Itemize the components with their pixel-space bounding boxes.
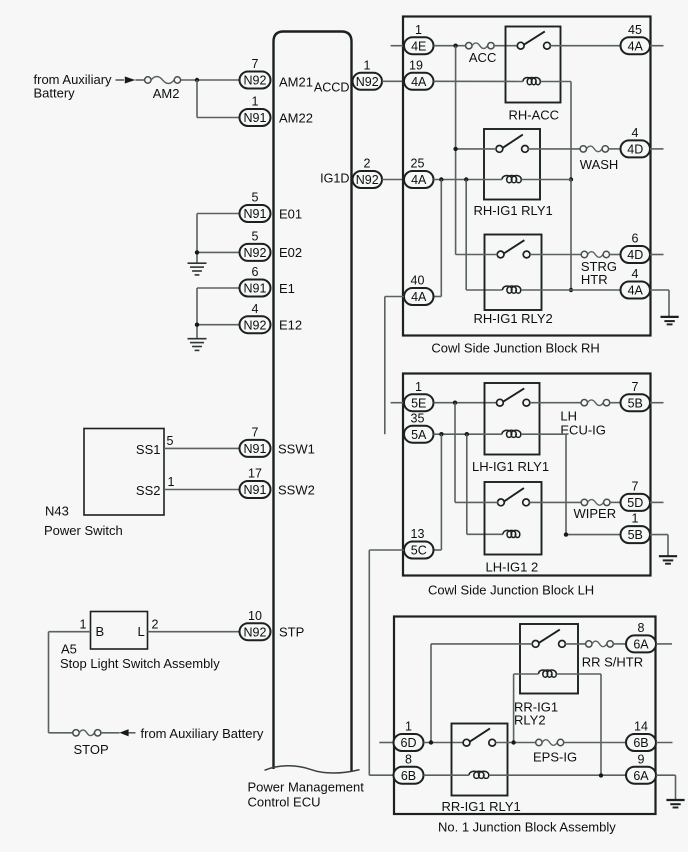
fuse LH ECU-IG (581, 400, 610, 406)
wire 25-4A to RLY1 coil (434, 179, 503, 181)
svg-text:6A: 6A (633, 769, 649, 783)
wire branch down to AM22 (197, 80, 239, 118)
label SSW1 (278, 442, 315, 457)
label AM22 (279, 111, 313, 126)
label A5 (61, 642, 77, 657)
label Cowl Side Junction Block LH (428, 582, 594, 597)
wire LH-IG1 2 contact feed (455, 501, 498, 503)
svg-text:N91: N91 (244, 442, 267, 456)
wire STOP fuse to arrow (101, 732, 136, 734)
svg-text:IG1D: IG1D (320, 171, 349, 185)
connector N92 pin 4 (E12) (240, 302, 271, 333)
connector N91 pin 7 (SSW1) (240, 426, 271, 457)
junction node ACC branch (453, 44, 457, 48)
wire stub right of 14-6B (656, 742, 673, 744)
connector N92 pin 10 (STP) (240, 609, 271, 640)
svg-text:N43: N43 (45, 504, 69, 519)
svg-text:5: 5 (252, 191, 259, 205)
wire ACC branch down to relay contacts (455, 46, 457, 255)
svg-text:4A: 4A (411, 173, 427, 187)
svg-text:4: 4 (632, 126, 639, 140)
connector 4E pin 1 (404, 23, 434, 54)
relay LH-IG1 2 coil (503, 530, 520, 537)
svg-text:40: 40 (411, 274, 425, 288)
svg-text:Cowl Side Junction Block RH: Cowl Side Junction Block RH (431, 340, 599, 355)
wire 5C riser (434, 434, 442, 550)
relay RH-IG1 RLY2 coil (503, 286, 521, 293)
junction node 6D/RLY2 contact (429, 740, 433, 744)
wire stop switch to STP (148, 631, 240, 633)
wire SS1 to SSW1 (164, 447, 239, 449)
svg-text:2: 2 (364, 157, 371, 171)
label SS2 (136, 483, 161, 498)
svg-text:N91: N91 (244, 282, 267, 296)
svg-text:N92: N92 (244, 625, 267, 639)
junction node coil return LH (564, 532, 568, 536)
label ECU-IG (560, 422, 606, 437)
svg-text:EPS-IG: EPS-IG (533, 749, 577, 764)
relay LH-IG1 2 contact (498, 488, 530, 506)
wire ACCD to junction block 4A (382, 80, 404, 82)
svg-text:1: 1 (168, 475, 175, 489)
junction node RLY1 contact tee (453, 147, 457, 151)
svg-text:7: 7 (632, 380, 639, 394)
relay LH-IG1 RLY1 box (485, 383, 540, 455)
connector 4A pin 45 (top) (621, 23, 651, 54)
connector N92 pin 7 (AM21) (240, 57, 271, 88)
wire fuse to 5B (610, 402, 621, 404)
label L (138, 624, 145, 639)
relay RR-IG1 RLY1 contact (463, 728, 496, 746)
junction block Cowl Side Junction Block RH outline (403, 17, 651, 336)
relay LH-IG1 RLY1 contact (497, 388, 530, 406)
label EPS-IG (533, 749, 577, 764)
svg-text:N91: N91 (244, 207, 267, 221)
label SS1 (136, 442, 161, 457)
label LH-IG1 RLY1 (472, 459, 549, 474)
relay RR-IG1 RLY1 coil (469, 771, 489, 778)
label ACC (469, 50, 496, 65)
svg-text:SS1: SS1 (136, 442, 161, 457)
connector 4D pin 4 (621, 126, 651, 157)
wire to STOP fuse (49, 732, 73, 734)
wire RLY2 coil return (557, 674, 602, 775)
relay RH-IG1 RLY1 coil (502, 176, 521, 183)
svg-text:B: B (96, 624, 105, 639)
fuse ACC (466, 43, 495, 49)
svg-text:8: 8 (405, 752, 412, 766)
connector N91 pin 5 (E01) (240, 191, 271, 222)
connector 4A pin 4 (ground) (621, 267, 651, 298)
ground (No.1 block) (666, 800, 684, 808)
connector 4D pin 6 (621, 232, 651, 263)
label RR S/HTR (582, 654, 643, 669)
wire 40-4A to 35-5A link (385, 297, 404, 435)
label LH-IG1 2 (486, 559, 539, 574)
svg-text:E01: E01 (279, 206, 302, 221)
connector 5C pin 13 (404, 527, 434, 558)
wire LH-IG1 2 contact to WIPER fuse (529, 501, 581, 503)
connector 5D pin 7 (621, 480, 651, 511)
svg-text:N91: N91 (244, 483, 267, 497)
svg-text:1: 1 (364, 58, 371, 72)
wire E12 to ground bus (197, 288, 239, 339)
label LH (560, 409, 577, 424)
svg-text:5B: 5B (628, 528, 643, 542)
junction block Cowl Side Junction Block LH outline (403, 374, 651, 576)
svg-text:Power Switch: Power Switch (44, 523, 123, 538)
fuse EPS-IG (536, 739, 564, 745)
wire ground bus down (570, 180, 572, 291)
wire RLY2 contact feed (456, 254, 498, 256)
label from Auxiliary Battery (top feed) (34, 72, 113, 101)
label RR-IG1 RLY1 (442, 799, 521, 814)
wire 6D to RLY1 contact (424, 742, 464, 744)
relay RH-ACC contact (517, 31, 550, 49)
wire stub left of 4E (391, 45, 404, 47)
connector 6A pin 8 (626, 621, 656, 652)
svg-text:45: 45 (628, 23, 642, 37)
svg-text:from Auxiliary Battery: from Auxiliary Battery (141, 726, 264, 741)
svg-text:RH-ACC: RH-ACC (509, 107, 560, 122)
svg-text:HTR: HTR (581, 272, 608, 287)
junction node coil bus B (464, 177, 468, 181)
wire 19-4A to RH-ACC coil (434, 80, 524, 82)
wire RLY2 coil feed riser (466, 180, 502, 291)
connector 5A pin 35 (404, 411, 434, 442)
svg-text:1: 1 (405, 720, 412, 734)
wire E01 to ground bus (197, 213, 239, 215)
svg-text:7: 7 (252, 57, 259, 71)
svg-text:LH-IG1 2: LH-IG1 2 (486, 559, 539, 574)
wire EPS fuse to 6B (564, 742, 626, 744)
junction node LH coil bus A (439, 432, 443, 436)
svg-text:14: 14 (634, 720, 648, 734)
relay RH-IG1 RLY2 contact (497, 240, 530, 258)
svg-text:N92: N92 (244, 74, 267, 88)
wire AM2 to node (181, 79, 239, 81)
wire 4-4A to ground (650, 290, 669, 317)
wire 9-6A to ground (656, 775, 676, 799)
svg-text:N92: N92 (356, 173, 379, 187)
wire LH RLY1 coil return (521, 434, 566, 534)
svg-text:25: 25 (411, 157, 425, 171)
wire RLY1 contact to WASH fuse (528, 148, 580, 150)
pin 2 (stop switch) (152, 617, 159, 631)
svg-text:Battery: Battery (34, 86, 76, 101)
connector N91 pin 6 (E1) (240, 265, 271, 296)
label E02 (279, 245, 302, 260)
ground (LH block) (659, 556, 677, 564)
svg-text:LH-IG1 RLY1: LH-IG1 RLY1 (472, 459, 549, 474)
svg-text:4A: 4A (411, 75, 427, 89)
relay RR-IG1 RLY2 contact (532, 630, 565, 648)
wire RH-ACC contact to 4A (550, 45, 620, 47)
label ACCD (314, 81, 350, 95)
svg-text:N92: N92 (244, 318, 267, 332)
svg-text:2: 2 (152, 617, 159, 631)
wire 40-4A riser (434, 180, 442, 297)
label STRG (581, 259, 617, 274)
label AM2 (153, 86, 180, 101)
wire coil return to 4A (521, 289, 621, 291)
wire RLY2 contact to RR S/HTR fuse (565, 643, 585, 645)
connector N92 pin 1 (ACCD) (353, 58, 383, 89)
wire RLY2 coil feed riser (514, 674, 539, 743)
connector 6A pin 9 (626, 752, 656, 783)
wire stub right of 45-4A (650, 45, 664, 47)
label STOP (74, 742, 109, 757)
svg-text:6: 6 (252, 265, 259, 279)
label AM21 (279, 75, 313, 90)
wire RH-ACC coil to ground bus (541, 82, 572, 180)
wire RLY1 coil return to 6A (489, 774, 626, 776)
svg-text:A5: A5 (61, 642, 77, 657)
wire WIPER fuse to 5D (610, 501, 621, 503)
wire fuse to 6A (613, 643, 626, 645)
svg-text:1: 1 (80, 617, 87, 631)
svg-text:1: 1 (415, 23, 422, 37)
relay RH-IG1 RLY1 contact (496, 135, 528, 153)
label E12 (279, 318, 302, 333)
wire 4E to ACC fuse (434, 45, 466, 47)
svg-text:Cowl Side Junction Block LH: Cowl Side Junction Block LH (428, 582, 594, 597)
svg-text:4A: 4A (628, 284, 644, 298)
label SSW2 (278, 483, 315, 498)
junction block No. 1 Junction Block Assembly outline (394, 617, 656, 815)
wire LH RLY1 contact to fuse (530, 402, 582, 404)
label from Auxiliary Battery (bottom feed) (141, 726, 264, 741)
connector 5B pin 7 (621, 380, 651, 411)
wire RLY1 coil to ground bus (522, 179, 572, 181)
connector 6B pin 14 (626, 720, 656, 751)
wire 5E to RLY1 contact (434, 402, 497, 404)
ground (E1/E12) (188, 339, 207, 351)
connector 4A pin 40 (404, 274, 434, 305)
wire RLY2 contact feed riser (431, 644, 533, 743)
svg-text:5C: 5C (411, 544, 427, 558)
svg-text:6B: 6B (401, 769, 416, 783)
svg-text:5: 5 (252, 230, 259, 244)
connector N91 pin 1 (AM22) (240, 95, 271, 126)
relay RH-ACC coil (523, 78, 540, 85)
ECU body (Power Management Control ECU outline) (265, 32, 360, 774)
relay RR-IG1 RLY1 box (452, 724, 508, 796)
label HTR (581, 272, 608, 287)
relay RH-IG1 RLY1 box (484, 129, 540, 200)
label Power Management Control ECU (248, 780, 365, 810)
junction node coil return RLY1 (569, 177, 573, 181)
label RH-ACC (509, 107, 560, 122)
wire E02 to ground bus (197, 214, 239, 264)
pin 5 (SS1) (167, 434, 174, 448)
arrow feed direction (points left) (119, 729, 128, 736)
svg-text:Stop Light Switch Assembly: Stop Light Switch Assembly (60, 656, 220, 671)
connector 6B pin 8 (394, 752, 424, 783)
svg-text:LH: LH (560, 409, 577, 424)
svg-text:4A: 4A (628, 39, 644, 53)
svg-text:5: 5 (167, 434, 174, 448)
label Power Switch (44, 523, 123, 538)
wire STRG fuse to 4D (610, 254, 621, 256)
svg-text:1: 1 (415, 380, 422, 394)
svg-text:RR S/HTR: RR S/HTR (582, 654, 643, 669)
wire SS2 to SSW2 (164, 489, 239, 491)
svg-text:ACCD: ACCD (314, 81, 350, 95)
wire stub right of 7-5B (650, 402, 664, 404)
svg-text:10: 10 (248, 609, 262, 623)
relay RR-IG1 RLY2 coil (539, 670, 557, 677)
svg-text:4E: 4E (411, 39, 426, 53)
svg-text:ECU-IG: ECU-IG (560, 422, 606, 437)
label WASH (580, 157, 619, 172)
wire 5E branch down (454, 403, 456, 503)
svg-text:SSW2: SSW2 (278, 483, 315, 498)
arrow feed direction (points right) (125, 77, 145, 84)
svg-text:1: 1 (632, 512, 639, 526)
svg-text:SS2: SS2 (136, 483, 161, 498)
connector N92 pin 5 (E02) (240, 230, 271, 261)
junction node RLY2 coil tee (511, 740, 515, 744)
label E1 (279, 281, 295, 296)
wire stub right of 6-4D (650, 254, 664, 256)
svg-text:4: 4 (632, 267, 639, 281)
svg-text:4A: 4A (411, 290, 427, 304)
svg-text:35: 35 (411, 411, 425, 425)
label E01 (279, 206, 302, 221)
connector 6D pin 1 (394, 720, 424, 751)
wire 1-5B to ground (650, 535, 668, 556)
ground (E01/E02) (188, 263, 207, 275)
svg-text:N92: N92 (244, 246, 267, 260)
relay LH-IG1 RLY1 coil (502, 430, 521, 437)
svg-text:WIPER: WIPER (574, 506, 617, 521)
label STP (279, 625, 304, 640)
relay RR-IG1 RLY2 box (520, 624, 578, 694)
svg-text:6B: 6B (633, 736, 648, 750)
wire feed to arrow (116, 79, 125, 81)
svg-text:6D: 6D (401, 736, 417, 750)
relay RH-ACC box (506, 27, 561, 103)
label WIPER (574, 506, 617, 521)
junction node E02/ground (195, 250, 199, 254)
wire RLY1 contact to EPS fuse (495, 742, 535, 744)
svg-text:E12: E12 (279, 318, 302, 333)
label RH-IG1 RLY2 (474, 311, 553, 326)
label RLY2 (514, 712, 546, 727)
svg-text:E1: E1 (279, 281, 295, 296)
wire contact feed RLY1 (456, 148, 497, 150)
wire 5C long link to 6B (369, 550, 404, 775)
svg-text:STP: STP (279, 625, 304, 640)
junction node coil bus A (439, 177, 443, 181)
svg-text:RR-IG1 RLY1: RR-IG1 RLY1 (442, 799, 521, 814)
svg-text:4D: 4D (627, 143, 643, 157)
label Stop Light Switch Assembly (60, 656, 220, 671)
wire LH-IG1 2 coil feed riser (467, 434, 503, 534)
wire stub right of 8-6A (656, 643, 672, 645)
connector 5E pin 1 (404, 380, 434, 411)
junction node AM2/AM21 (195, 78, 199, 82)
svg-text:ACC: ACC (469, 50, 496, 65)
junction node 5E branch (453, 401, 457, 405)
junction node E12/ground (195, 323, 199, 327)
label N43 (45, 504, 69, 519)
wire stub left of 6D (379, 742, 394, 744)
svg-text:9: 9 (638, 752, 645, 766)
svg-text:Control ECU: Control ECU (248, 795, 321, 810)
svg-text:5B: 5B (628, 396, 643, 410)
wire WASH fuse to 4D (609, 148, 621, 150)
wire ACC fuse to relay RH-ACC (494, 45, 517, 47)
svg-text:5E: 5E (411, 396, 426, 410)
fuse STOP (73, 730, 101, 736)
fuse AM2 (145, 77, 181, 84)
junction node LH coil bus B (465, 432, 469, 436)
label RH-IG1 RLY1 (474, 203, 553, 218)
wire 6B to RLY1 coil (424, 774, 470, 776)
wire stub right of 7-5D (650, 501, 664, 503)
svg-text:4D: 4D (627, 248, 643, 262)
wire RLY2 contact to STRG fuse (530, 254, 581, 256)
switch A5 Stop Light Switch box (91, 612, 148, 650)
svg-text:Power Management: Power Management (248, 780, 365, 795)
svg-text:N92: N92 (356, 75, 379, 89)
svg-text:8: 8 (638, 621, 645, 635)
svg-text:RH-IG1 RLY2: RH-IG1 RLY2 (474, 311, 553, 326)
svg-text:AM2: AM2 (153, 86, 180, 101)
wire stop switch left leg (49, 632, 91, 733)
junction node coil return No1 (599, 773, 603, 777)
connector N92 pin 2 (IG1D) (353, 157, 383, 188)
svg-text:7: 7 (632, 480, 639, 494)
wire coil return to 5B (566, 534, 621, 536)
svg-text:6A: 6A (633, 638, 649, 652)
wire 5A to LH RLY1 coil (434, 433, 503, 435)
svg-text:5A: 5A (411, 428, 427, 442)
svg-text:WASH: WASH (580, 157, 619, 172)
fuse STRG HTR (581, 251, 609, 257)
pin 1 (SS2) (168, 475, 175, 489)
svg-text:17: 17 (248, 467, 262, 481)
fuse WASH (580, 146, 608, 152)
svg-text:5D: 5D (627, 496, 643, 510)
junction node coil return RLY2 (569, 288, 573, 292)
svg-text:4: 4 (252, 302, 259, 316)
svg-text:AM22: AM22 (279, 111, 313, 126)
svg-text:SSW1: SSW1 (278, 442, 315, 457)
svg-text:STOP: STOP (74, 742, 109, 757)
svg-text:E02: E02 (279, 245, 302, 260)
wire E1 to ground bus (197, 287, 239, 289)
label No. 1 Junction Block Assembly (438, 820, 616, 835)
svg-text:7: 7 (252, 426, 259, 440)
fuse RR S/HTR (586, 641, 614, 647)
connector 4A pin 19 (404, 58, 434, 89)
connector 4A pin 25 (404, 157, 434, 188)
svg-text:RLY2: RLY2 (514, 712, 546, 727)
label B (96, 624, 105, 639)
switch N43 Power Switch box (84, 429, 164, 516)
pin 1 (stop switch) (80, 617, 87, 631)
svg-text:13: 13 (411, 527, 425, 541)
svg-text:19: 19 (409, 58, 423, 72)
wire stub left of 5E (391, 402, 404, 404)
svg-text:No. 1 Junction Block Assembly: No. 1 Junction Block Assembly (438, 820, 616, 835)
relay LH-IG1 2 box (485, 482, 542, 555)
fuse WIPER (581, 499, 610, 505)
svg-text:6: 6 (632, 232, 639, 246)
